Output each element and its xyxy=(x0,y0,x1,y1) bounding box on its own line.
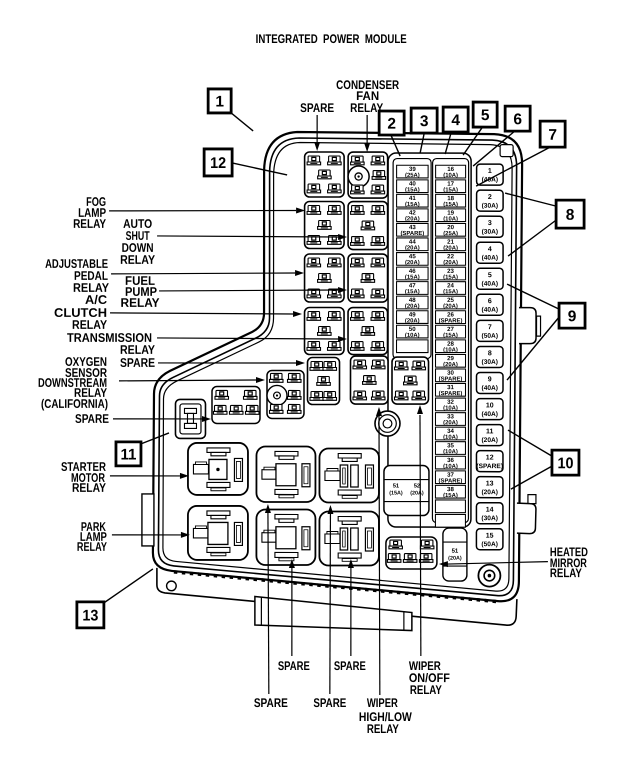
arrow spare row1 col2 xyxy=(265,504,271,694)
svg-text:(40A): (40A) xyxy=(482,281,499,288)
svg-text:5: 5 xyxy=(488,272,492,279)
label wiper on/off relay xyxy=(409,659,450,697)
leader callout 9a xyxy=(507,284,559,309)
leader callout 8b xyxy=(508,220,556,256)
spare relay module xyxy=(212,386,260,423)
fuse 4 (40A) xyxy=(477,242,504,263)
svg-text:2: 2 xyxy=(387,116,396,133)
svg-text:1: 1 xyxy=(215,94,224,111)
svg-text:RELAY: RELAY xyxy=(73,217,107,231)
heated mirror relay xyxy=(386,537,437,569)
label spare (relay row1 col2) xyxy=(254,696,288,710)
fuse 32 (10A) xyxy=(435,398,465,412)
svg-text:(15A): (15A) xyxy=(443,202,458,208)
fuse 3 (30A) xyxy=(477,216,504,237)
case middle rim line xyxy=(158,138,516,596)
label wiper high/low relay xyxy=(359,696,412,736)
fuse block 51/52 xyxy=(384,466,429,516)
label transmission relay xyxy=(67,331,156,357)
leader callout 10a xyxy=(508,430,552,456)
leader callout 4 xyxy=(445,133,451,155)
fuse 1 (40A) xyxy=(477,164,504,185)
leader callout 10b xyxy=(511,466,552,489)
spare relay (row2 col2) xyxy=(256,509,315,565)
arrow spare row2 col3 xyxy=(348,559,354,656)
svg-text:RELAY: RELAY xyxy=(121,296,161,310)
starter motor relay xyxy=(188,443,248,495)
svg-text:(10A): (10A) xyxy=(443,347,458,353)
svg-text:15: 15 xyxy=(486,533,494,540)
wiper on/off relay C5 xyxy=(392,357,429,404)
svg-text:(40A): (40A) xyxy=(482,307,499,314)
svg-text:(30A): (30A) xyxy=(482,359,499,366)
fuse 17 (15A) xyxy=(436,180,466,194)
svg-text:(20A): (20A) xyxy=(405,246,420,252)
callout 9 xyxy=(559,303,585,328)
fuse bank C enclosure (fuses 39-50) xyxy=(393,159,431,359)
svg-text:6: 6 xyxy=(488,298,492,305)
label spare (relay row2 col3) xyxy=(334,659,366,673)
svg-text:(20A): (20A) xyxy=(443,420,458,426)
fuse 22 (20A) xyxy=(436,253,466,267)
center mounting post xyxy=(375,411,400,436)
svg-text:(50A): (50A) xyxy=(481,541,498,548)
svg-text:3: 3 xyxy=(488,220,492,227)
leader callout 11 xyxy=(141,433,169,444)
svg-text:10: 10 xyxy=(486,402,494,409)
callout 8 xyxy=(556,200,584,228)
fuse 18 (15A) xyxy=(436,194,466,208)
right side tab lower xyxy=(517,495,536,534)
svg-text:RELAY: RELAY xyxy=(72,481,107,495)
label fog lamp relay xyxy=(73,195,107,231)
leader callout 2 xyxy=(391,136,400,157)
svg-text:(15A): (15A) xyxy=(405,275,420,281)
relay A4 xyxy=(305,307,345,354)
fuse 51 (20A) xyxy=(443,528,467,581)
svg-text:(15A): (15A) xyxy=(443,493,458,499)
svg-text:(20A): (20A) xyxy=(443,304,458,310)
svg-text:12: 12 xyxy=(210,155,226,172)
leader callout 7 xyxy=(476,147,550,186)
svg-text:51: 51 xyxy=(393,484,400,490)
fuse 6 (40A) xyxy=(477,294,504,315)
bottom mounting flange xyxy=(157,568,517,625)
label spare (relay A1) xyxy=(300,101,334,115)
fuse panel enclosure xyxy=(388,153,471,527)
svg-text:(10A): (10A) xyxy=(443,435,458,441)
fuse 28 (10A) xyxy=(436,340,466,354)
arrow spare row1 col3 xyxy=(327,505,333,694)
svg-text:(20A): (20A) xyxy=(405,318,420,324)
svg-text:SPARE: SPARE xyxy=(334,659,366,673)
transmission relay B4 xyxy=(348,308,388,355)
svg-text:5: 5 xyxy=(481,107,490,124)
label oxygen sensor downstream relay (california) xyxy=(38,355,108,411)
arrow oxygen sensor relay xyxy=(119,377,265,383)
svg-text:(20A): (20A) xyxy=(405,304,420,310)
leader callout 3 xyxy=(420,134,424,154)
fuse 40 (15A) xyxy=(397,180,429,194)
svg-text:RELAY: RELAY xyxy=(77,540,107,554)
auto shut down relay B2 xyxy=(348,202,388,250)
svg-text:(20A): (20A) xyxy=(448,556,462,562)
arrow starter motor relay xyxy=(110,473,189,479)
fuse 31 (SPARE) xyxy=(435,383,465,397)
svg-text:(15A): (15A) xyxy=(405,187,420,193)
svg-text:(20A): (20A) xyxy=(410,491,424,497)
svg-text:1: 1 xyxy=(488,168,492,175)
svg-text:(40A): (40A) xyxy=(482,255,499,262)
svg-text:(15A): (15A) xyxy=(443,333,458,339)
fuse 29 (20A) xyxy=(436,354,466,368)
svg-text:10: 10 xyxy=(557,455,573,472)
label spare (micro relay) xyxy=(75,412,109,426)
label adjustable pedal relay xyxy=(45,257,110,295)
svg-text:(10A): (10A) xyxy=(405,333,420,339)
bottom-right mounting post xyxy=(478,565,500,587)
svg-text:(30A): (30A) xyxy=(482,229,499,236)
fuse 9 (40A) xyxy=(476,372,503,393)
svg-text:(10A): (10A) xyxy=(443,406,458,412)
fuse 37 (SPARE) xyxy=(435,471,465,485)
svg-text:SPARE: SPARE xyxy=(278,659,310,673)
svg-text:A/C: A/C xyxy=(85,293,107,307)
left side tab xyxy=(142,494,154,546)
spare relay (row1 col2) xyxy=(256,446,315,502)
arrow transmission relay xyxy=(157,336,347,342)
fuse 39 (25A) xyxy=(397,165,429,179)
svg-text:(SPARE): (SPARE) xyxy=(439,377,463,383)
svg-text:(15A): (15A) xyxy=(443,275,458,281)
fuse 21 (20A) xyxy=(436,238,466,252)
fuse 2 (30A) xyxy=(477,190,504,211)
svg-text:(15A): (15A) xyxy=(443,289,458,295)
svg-text:RELAY: RELAY xyxy=(550,566,583,580)
fuse 27 (15A) xyxy=(436,325,466,339)
svg-text:3: 3 xyxy=(420,113,429,130)
svg-text:13: 13 xyxy=(82,607,98,624)
svg-text:(10A): (10A) xyxy=(443,173,458,179)
park lamp relay xyxy=(188,506,248,560)
svg-text:(SPARE): (SPARE) xyxy=(439,478,463,484)
svg-text:SPARE: SPARE xyxy=(254,696,288,710)
case inner rim line xyxy=(163,142,512,591)
leader callout 8a xyxy=(505,193,556,206)
svg-text:INTEGRATED POWER MODULE: INTEGRATED POWER MODULE xyxy=(256,32,407,46)
svg-text:(20A): (20A) xyxy=(405,216,420,222)
svg-text:52: 52 xyxy=(414,484,420,490)
svg-text:(20A): (20A) xyxy=(443,260,458,266)
svg-text:(15A): (15A) xyxy=(443,187,458,193)
svg-text:(20A): (20A) xyxy=(405,260,420,266)
arrow heated mirror relay xyxy=(439,561,548,567)
fuse 26 (SPARE) xyxy=(436,311,466,325)
relay A2 xyxy=(305,201,345,248)
spare relay B5 xyxy=(350,356,388,404)
svg-text:WIPER: WIPER xyxy=(367,696,398,710)
fuse 12 (SPARE) xyxy=(476,451,503,472)
label a/c clutch relay xyxy=(54,293,108,332)
svg-text:11: 11 xyxy=(486,428,494,435)
arrow wiper on/off relay xyxy=(417,405,423,656)
fuse 47 (15A) xyxy=(397,282,429,296)
fuse 10 (40A) xyxy=(476,399,503,420)
fuse 5 (40A) xyxy=(477,268,504,289)
callout 7 xyxy=(540,121,565,147)
leader callout 12 xyxy=(232,163,287,175)
arrow park lamp relay xyxy=(112,532,190,538)
fuse 46 (15A) xyxy=(397,267,429,281)
fuse 36 (10A) xyxy=(435,456,465,470)
fuse 25 (20A) xyxy=(436,296,466,310)
svg-text:(SPARE): (SPARE) xyxy=(439,318,463,324)
svg-text:(20A): (20A) xyxy=(481,489,498,496)
svg-text:RELAY: RELAY xyxy=(367,722,400,736)
fuse 16 (10A) xyxy=(436,165,466,179)
fuse 38 (15A) xyxy=(435,485,465,499)
fuse 48 (20A) xyxy=(397,296,429,310)
fuse 35 (10A) xyxy=(435,442,465,456)
svg-text:(25A): (25A) xyxy=(443,231,458,237)
svg-text:(10A): (10A) xyxy=(443,449,458,455)
arrow spare relay A1 xyxy=(314,115,320,151)
arrow a/c clutch relay xyxy=(110,311,302,317)
fuse 14 (30A) xyxy=(476,503,503,524)
oxygen sensor downstream relay (california) xyxy=(267,370,304,418)
svg-text:7: 7 xyxy=(488,324,492,331)
svg-text:14: 14 xyxy=(486,507,494,514)
spare relay A5 xyxy=(307,357,339,404)
svg-text:(SPARE): (SPARE) xyxy=(400,231,424,237)
callout 3 xyxy=(411,108,437,133)
svg-text:RELAY: RELAY xyxy=(120,253,156,267)
svg-text:RELAY: RELAY xyxy=(410,683,443,697)
svg-text:(15A): (15A) xyxy=(405,202,420,208)
fuel pump relay B3 xyxy=(348,254,388,302)
condenser fan relay B1 xyxy=(348,152,388,198)
label condenser fan relay xyxy=(336,78,399,115)
svg-text:4: 4 xyxy=(488,246,492,253)
svg-text:RELAY: RELAY xyxy=(72,318,108,332)
svg-text:2: 2 xyxy=(488,194,492,201)
svg-text:(40A): (40A) xyxy=(481,411,498,418)
case outer outline xyxy=(153,132,522,601)
callout 10 xyxy=(552,450,579,475)
svg-text:(10A): (10A) xyxy=(443,464,458,470)
bottom drawer rail xyxy=(255,596,412,630)
svg-text:(SPARE): (SPARE) xyxy=(476,463,503,470)
label starter motor relay xyxy=(61,460,107,495)
svg-text:(25A): (25A) xyxy=(405,173,420,179)
svg-text:9: 9 xyxy=(488,376,492,383)
svg-text:6: 6 xyxy=(513,111,522,128)
svg-text:11: 11 xyxy=(120,446,136,463)
svg-text:9: 9 xyxy=(568,308,577,325)
leader callout 13 xyxy=(104,569,153,603)
svg-text:7: 7 xyxy=(548,127,557,144)
fuse bank D empty slot 1 xyxy=(435,500,465,513)
svg-text:(20A): (20A) xyxy=(443,362,458,368)
fuse 24 (15A) xyxy=(436,282,466,296)
svg-text:SPARE: SPARE xyxy=(313,696,346,710)
fuse 7 (50A) xyxy=(477,320,504,341)
fuse 19 (10A) xyxy=(436,209,466,223)
relay A3 xyxy=(305,254,345,302)
right side tab upper xyxy=(519,308,541,344)
fuse 15 (50A) xyxy=(476,529,503,550)
leader callout 1 xyxy=(231,113,253,131)
spare relay (row1 col3) xyxy=(319,448,379,502)
spare relay (row2 col3) xyxy=(319,511,379,565)
fuse 33 (20A) xyxy=(435,413,465,427)
label auto shut down relay xyxy=(120,217,156,267)
fuse 42 (20A) xyxy=(397,209,429,223)
bottom-left mounting hole xyxy=(167,581,177,591)
fuse 20 (25A) xyxy=(436,223,466,237)
svg-text:RELAY: RELAY xyxy=(120,343,156,357)
callout 11 xyxy=(116,442,141,466)
svg-text:4: 4 xyxy=(451,112,460,129)
arrow spare relay A5 xyxy=(158,360,305,366)
fuse bank D empty slot 2 xyxy=(435,514,465,527)
svg-text:51: 51 xyxy=(452,549,459,555)
arrow condenser fan relay xyxy=(364,115,370,152)
callout 13 xyxy=(77,602,104,628)
svg-text:13: 13 xyxy=(486,480,494,487)
svg-text:8: 8 xyxy=(566,207,575,224)
spare micro relay xyxy=(175,399,205,438)
fuse 23 (15A) xyxy=(436,267,466,281)
fuse 45 (20A) xyxy=(397,253,429,267)
callout 5 xyxy=(473,102,497,127)
fuse 34 (10A) xyxy=(435,427,465,441)
fuse 50 (10A) xyxy=(397,325,429,339)
fuse 11 (20A) xyxy=(476,425,503,446)
svg-text:(SPARE): (SPARE) xyxy=(439,391,463,397)
svg-text:(30A): (30A) xyxy=(481,515,498,522)
arrow fuel pump relay xyxy=(159,287,347,293)
svg-text:SPARE: SPARE xyxy=(300,101,334,115)
svg-text:(40A): (40A) xyxy=(481,385,498,392)
fuse 13 (20A) xyxy=(476,477,503,498)
arrow wiper high/low relay xyxy=(376,407,382,695)
leader callout 9b xyxy=(507,317,559,380)
label spare (relay row2 col2) xyxy=(278,659,310,673)
callout 4 xyxy=(443,107,468,132)
fuse 8 (30A) xyxy=(477,346,504,367)
top-right lid notch xyxy=(500,145,513,157)
svg-text:8: 8 xyxy=(488,350,492,357)
svg-text:(20A): (20A) xyxy=(481,437,498,444)
arrow auto shut down relay xyxy=(157,234,347,240)
label park lamp relay xyxy=(77,520,107,554)
label fuel pump relay xyxy=(121,274,161,310)
svg-text:(30A): (30A) xyxy=(482,203,499,210)
label spare (relay row1 col3) xyxy=(313,696,346,710)
fuse 41 (15A) xyxy=(397,194,429,208)
svg-text:12: 12 xyxy=(486,454,494,461)
fuse bank C empty slot xyxy=(397,340,429,353)
bottom flange hatch strip xyxy=(174,572,497,602)
fuse bank D enclosure (fuses 16-38) xyxy=(432,159,468,523)
callout 2 xyxy=(379,111,404,135)
fuse 43 (SPARE) xyxy=(397,223,429,237)
leader callout 5 xyxy=(463,128,482,156)
label spare (relay A5) xyxy=(120,356,155,370)
svg-text:(10A): (10A) xyxy=(443,216,458,222)
svg-text:(15A): (15A) xyxy=(405,289,420,295)
leader callout 6 xyxy=(473,132,514,167)
callout 6 xyxy=(505,106,530,131)
svg-text:(50A): (50A) xyxy=(482,333,499,340)
arrow fog lamp relay xyxy=(109,207,305,213)
fuse 44 (20A) xyxy=(397,238,429,252)
label heated mirror relay xyxy=(550,545,588,580)
fuse 30 (SPARE) xyxy=(436,369,466,383)
fuse 49 (20A) xyxy=(397,311,429,325)
arrow spare row2 col2 xyxy=(289,559,295,656)
svg-text:(15A): (15A) xyxy=(389,491,403,497)
arrow spare micro relay xyxy=(113,416,211,422)
callout 12 xyxy=(204,149,232,176)
arrow adjustable pedal relay xyxy=(111,270,304,276)
callout 1 xyxy=(208,89,231,113)
svg-text:SPARE: SPARE xyxy=(75,412,109,426)
svg-text:(CALIFORNIA): (CALIFORNIA) xyxy=(41,397,108,411)
svg-text:RELAY: RELAY xyxy=(350,101,384,115)
svg-text:SPARE: SPARE xyxy=(120,356,155,370)
relay A1 xyxy=(305,152,345,197)
svg-text:(20A): (20A) xyxy=(443,246,458,252)
